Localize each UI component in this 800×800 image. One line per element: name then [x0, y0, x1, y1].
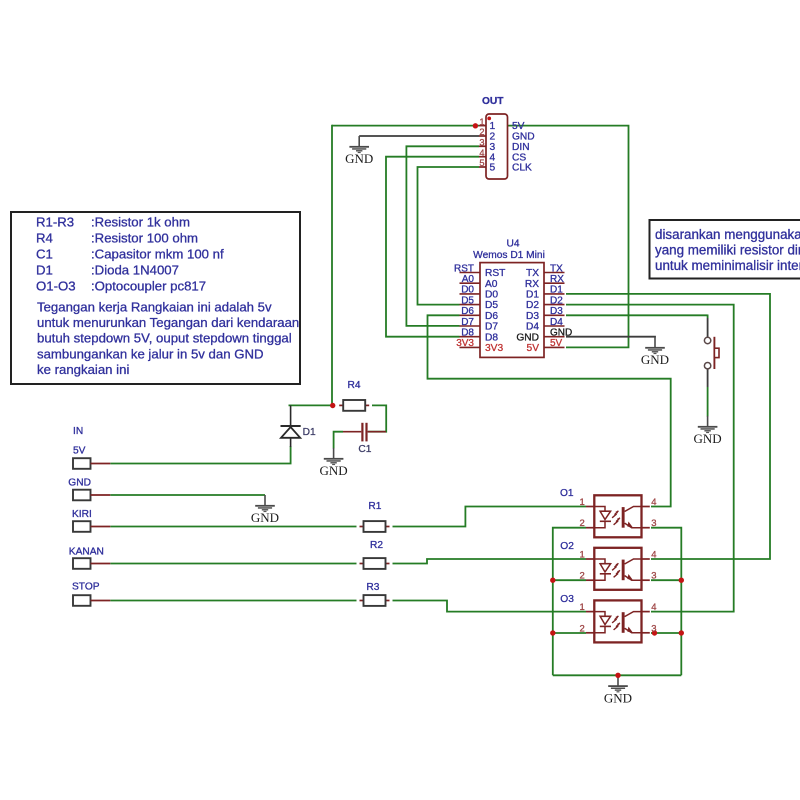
OUT pin 2 GND: [479, 127, 535, 142]
OUT pin 1 marker dot: [487, 117, 491, 121]
wire O3 pin3 stub: [651, 632, 681, 634]
svg-text:R4: R4: [36, 231, 53, 246]
svg-text:R1-R3: R1-R3: [36, 215, 74, 230]
svg-text:yang memiliki resistor dirnal: yang memiliki resistor dirnal: [655, 243, 800, 258]
push button S1: [704, 337, 719, 370]
svg-text:D4: D4: [526, 322, 539, 333]
svg-text:D6: D6: [461, 306, 474, 317]
junction rail dots: [550, 578, 684, 679]
svg-text:D2: D2: [526, 300, 539, 311]
svg-text:IN: IN: [73, 426, 83, 437]
wire 5V net: vertical to R4 junction: [331, 125, 333, 406]
svg-text:D1: D1: [526, 290, 539, 301]
wire CS net: OUT pin4 to U4 D8: [386, 157, 479, 337]
wire R4 output to C1: [368, 405, 386, 431]
svg-text:D3: D3: [550, 306, 563, 317]
U4 left pin D8: [460, 328, 499, 344]
svg-text:GND: GND: [516, 332, 539, 343]
U4 right pin 5V: [527, 338, 565, 354]
OUT pin 4 CS: [479, 148, 526, 163]
svg-text:OUT: OUT: [482, 96, 504, 107]
optocoupler O2: [560, 541, 656, 590]
svg-text:D8: D8: [461, 328, 474, 339]
svg-text:5V: 5V: [527, 343, 540, 354]
svg-text:RX: RX: [550, 274, 564, 285]
svg-text:3: 3: [651, 518, 656, 529]
svg-text:R3: R3: [366, 582, 379, 593]
svg-text:R1: R1: [368, 501, 381, 512]
wire KIRI net: R1 to O1 pin1: [393, 507, 587, 527]
svg-text:4: 4: [651, 602, 656, 613]
svg-text:U4: U4: [506, 239, 519, 250]
svg-text:ke rangkaian ini: ke rangkaian ini: [37, 362, 129, 377]
U4 right pin D2: [526, 295, 565, 311]
svg-text:GND: GND: [641, 352, 669, 367]
U4 left pin 3V3: [456, 338, 503, 354]
svg-text:1: 1: [580, 602, 585, 613]
wire 5V net: OUT right to U4 5V vertical: [508, 126, 629, 348]
wire DIN net: OUT pin3 to U4 D7: [406, 146, 479, 326]
svg-text:3V3: 3V3: [485, 343, 503, 354]
wire KANAN net: pad to R2: [110, 563, 356, 565]
svg-text:3: 3: [651, 623, 656, 634]
U4 right pin TX: [526, 263, 565, 279]
ground GND near OUT: [345, 136, 373, 166]
svg-text:A0: A0: [485, 279, 498, 290]
svg-text:2: 2: [580, 623, 585, 634]
svg-text::Resistor 100 ohm: :Resistor 100 ohm: [91, 231, 198, 246]
svg-text:butuh stepdown 5V, ouput stepd: butuh stepdown 5V, ouput stepdown tingga…: [37, 331, 292, 346]
svg-text:GND: GND: [345, 151, 373, 166]
svg-text:D1: D1: [36, 263, 53, 278]
connector pad STOP: [72, 581, 110, 605]
OUT pin 3 DIN: [479, 138, 530, 153]
svg-text:D3: D3: [526, 311, 539, 322]
U4 right pin D1: [526, 285, 565, 301]
wire D3 net: U4 D3 to push button: [566, 315, 708, 337]
svg-text:D7: D7: [461, 317, 474, 328]
svg-text:5: 5: [490, 163, 496, 174]
wire 5V net: OUT pin1 to left vertical: [332, 125, 479, 127]
svg-text:GND: GND: [694, 431, 722, 446]
wire C1 to ground: [334, 432, 343, 449]
wire ground rail bottom: [553, 674, 682, 676]
svg-text:Tegangan kerja Rangkaian ini a: Tegangan kerja Rangkaian ini adalah 5v: [37, 300, 272, 315]
svg-text:3V3: 3V3: [456, 338, 474, 349]
svg-text:D0: D0: [461, 285, 474, 296]
wire KIRI net: pad to R1: [110, 526, 356, 528]
svg-text:R4: R4: [348, 380, 361, 391]
svg-text:5V: 5V: [550, 338, 563, 349]
svg-text:C1: C1: [358, 444, 371, 455]
connector pad KIRI: [72, 509, 110, 532]
wire KANAN net: R2 to O2 pin1: [393, 559, 587, 564]
U4 left pin RST: [454, 263, 505, 279]
U4 right pin D4: [526, 317, 565, 333]
module U4 Wemos D1 Mini body: [473, 239, 545, 358]
svg-text:disarankan menggunakanrnal: disarankan menggunakanrnal: [655, 227, 800, 242]
optocoupler O1: [560, 488, 657, 537]
optocoupler O3: [560, 594, 656, 642]
wire D2 net: U4 D2 to O3 pin4: [566, 305, 734, 612]
svg-text:O2: O2: [560, 541, 574, 552]
wire GND net: OUT pin2 to ground: [359, 135, 479, 137]
svg-text:untuk meminimalisir internal: untuk meminimalisir internal: [655, 258, 800, 273]
svg-text::Optocoupler pc817: :Optocoupler pc817: [91, 279, 206, 294]
svg-text:untuk menurunkan Tegangan dari: untuk menurunkan Tegangan dari kendaraan: [37, 315, 299, 330]
svg-text:D1: D1: [303, 427, 316, 438]
wire STOP net: R3 to O3 pin1: [393, 601, 587, 612]
wire diode D1 cathode to R4 junction: [289, 404, 332, 406]
U4 left pin D5: [460, 295, 499, 311]
ground GND input: [251, 495, 279, 525]
wire IN 5V net: pad to diode D1: [110, 446, 290, 464]
svg-text:2: 2: [580, 571, 585, 582]
wire O3 pin2 stub: [553, 632, 586, 634]
wire D1 net: U4 D1 to O2 pin4: [566, 294, 770, 559]
svg-text:KIRI: KIRI: [72, 509, 92, 520]
svg-text:KANAN: KANAN: [69, 546, 104, 557]
svg-text:5V: 5V: [512, 121, 525, 132]
svg-text:GND: GND: [604, 691, 632, 706]
svg-text:RX: RX: [525, 279, 539, 290]
svg-text:GND: GND: [550, 328, 572, 339]
svg-text::Capasitor mkm 100 nf: :Capasitor mkm 100 nf: [91, 247, 224, 262]
U4 left pin D7: [460, 317, 499, 333]
ground GND near U4: [641, 337, 669, 367]
resistor R4: [339, 380, 369, 411]
wire O2 pin3 stub: [651, 579, 681, 581]
OUT pin 1 5V: [479, 117, 525, 132]
svg-text:CLK: CLK: [512, 163, 532, 174]
svg-text:sambungankan ke jalur in 5v da: sambungankan ke jalur in 5v dan GND: [37, 346, 264, 361]
OUT pin 5 CLK: [479, 158, 532, 173]
capacitor C1: [343, 423, 386, 455]
svg-text:1: 1: [479, 117, 484, 127]
wire GND net: input GND pad to ground: [110, 494, 265, 496]
junction at R4 / D1 / C1 node: [330, 403, 335, 408]
connector OUT: [482, 96, 508, 179]
connector pad KANAN: [69, 546, 111, 568]
svg-text:5: 5: [479, 158, 484, 168]
svg-text:D2: D2: [550, 295, 563, 306]
svg-text:GND: GND: [251, 510, 279, 525]
U4 right pin D3: [526, 306, 565, 322]
wire cathode rail: O1 pin2 down to ground rail: [553, 528, 586, 676]
svg-text:2: 2: [580, 518, 585, 529]
svg-text:O3: O3: [560, 594, 574, 605]
svg-text:DIN: DIN: [512, 142, 530, 153]
svg-text:D5: D5: [485, 300, 498, 311]
legend text box: [11, 212, 300, 384]
svg-text:C1: C1: [36, 247, 53, 262]
junction 5V at OUT pin1: [473, 123, 478, 128]
svg-text:RST: RST: [485, 268, 505, 279]
svg-text:1: 1: [490, 121, 496, 132]
resistor R3: [360, 582, 390, 606]
svg-text:3: 3: [651, 571, 656, 582]
svg-text:D5: D5: [461, 295, 474, 306]
svg-text:Wemos D1 Mini: Wemos D1 Mini: [473, 250, 545, 261]
svg-text:D1: D1: [550, 285, 563, 296]
svg-text:O1: O1: [560, 488, 574, 499]
svg-text:3: 3: [490, 142, 496, 153]
note text box: [650, 220, 800, 279]
svg-text:A0: A0: [462, 274, 475, 285]
resistor R2: [360, 540, 390, 569]
svg-text:D4: D4: [550, 317, 563, 328]
svg-text:TX: TX: [526, 268, 539, 279]
svg-text:D7: D7: [485, 322, 498, 333]
connector pad GND: [68, 478, 110, 501]
wire GND net: U4 GND pin to ground: [566, 336, 655, 339]
svg-text:D8: D8: [485, 332, 498, 343]
U4 left pin D0: [460, 285, 499, 301]
svg-text:5V: 5V: [73, 445, 86, 456]
svg-text::Dioda 1N4007: :Dioda 1N4007: [91, 263, 179, 278]
ground GND at C1: [320, 448, 348, 478]
wire STOP net: pad to R3: [110, 600, 356, 602]
svg-text:1: 1: [580, 497, 585, 508]
connector pad 5V: [73, 445, 110, 469]
wire emitter rail: O1 pin3 down to ground rail: [651, 528, 681, 676]
U4 left pin A0: [460, 274, 498, 290]
U4 right pin GND: [516, 328, 572, 344]
svg-text:4: 4: [651, 497, 656, 508]
diode D1: [281, 405, 316, 447]
svg-text:GND: GND: [320, 463, 348, 478]
wire CLK net: OUT pin5 to U4 D5: [418, 167, 480, 305]
resistor R1: [360, 501, 390, 532]
svg-text:TX: TX: [550, 263, 563, 274]
svg-text:GND: GND: [68, 478, 91, 489]
svg-text:D0: D0: [485, 290, 498, 301]
U4 right pin RX: [525, 274, 565, 290]
svg-text:R2: R2: [370, 540, 383, 551]
svg-text:STOP: STOP: [72, 581, 100, 592]
wire D6 net: U4 D6 to O1 pin4: [428, 315, 671, 506]
svg-text:2: 2: [479, 127, 484, 137]
svg-text:O1-O3: O1-O3: [36, 279, 76, 294]
svg-text::Resistor 1k ohm: :Resistor 1k ohm: [91, 215, 190, 230]
svg-text:4: 4: [651, 550, 656, 561]
svg-text:1: 1: [580, 550, 585, 561]
wire: button to ground: [707, 369, 709, 417]
label IN: [73, 426, 83, 437]
wire O2 pin2 stub: [553, 579, 586, 581]
svg-text:RST: RST: [454, 263, 474, 274]
U4 left pin D6: [460, 306, 499, 322]
svg-text:4: 4: [479, 148, 484, 158]
svg-text:3: 3: [479, 138, 484, 148]
svg-text:D6: D6: [485, 311, 498, 322]
ground GND bottom rail: [604, 675, 632, 705]
ground GND below button: [694, 416, 722, 446]
